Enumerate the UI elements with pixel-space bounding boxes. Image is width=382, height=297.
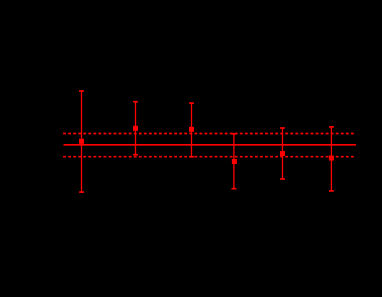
- error bar point 4: [232, 134, 237, 189]
- error bar point 1: [79, 91, 84, 192]
- error bar point 2: [133, 102, 138, 155]
- error bar point 5: [280, 128, 285, 179]
- error bar point 3: [189, 103, 194, 157]
- mean line (solid red): [64, 144, 356, 146]
- error bar point 6: [329, 127, 334, 191]
- lower band line (dashed red): [63, 156, 356, 158]
- upper band line (dashed red): [63, 133, 356, 135]
